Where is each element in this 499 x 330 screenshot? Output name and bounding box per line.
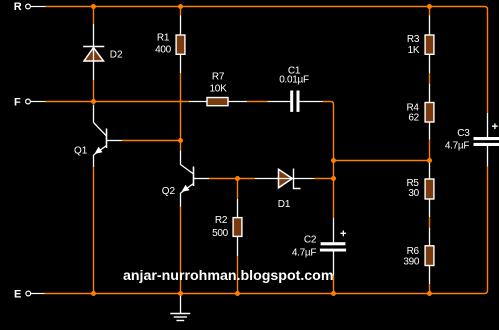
wire R6 bottom to bottom rail: [429, 284, 431, 293]
svg-text:500: 500: [212, 228, 229, 239]
junction D1 node: [331, 176, 336, 181]
wire D2 branch top stub: [93, 7, 95, 25]
svg-text:D2: D2: [110, 50, 123, 61]
junction F D2: [91, 99, 96, 104]
svg-text:C2: C2: [304, 234, 317, 245]
svg-text:390: 390: [403, 256, 420, 267]
wire D2 branch bottom to F node: [93, 80, 95, 102]
svg-text:R7: R7: [212, 71, 225, 82]
junction bottom R2: [235, 291, 240, 296]
svg-text:4.7µF: 4.7µF: [445, 141, 469, 152]
wire R7 to C1: [247, 101, 268, 103]
wire R2 bottom to bottom rail: [237, 256, 239, 294]
svg-text:R: R: [14, 1, 22, 13]
wire D1 cathode to node: [314, 178, 334, 180]
svg-text:10K: 10K: [210, 83, 228, 94]
svg-text:4.7µF: 4.7µF: [292, 247, 316, 258]
transistor Q2: [181, 151, 210, 207]
resistor R5: [425, 161, 434, 218]
wire net R top rail with corner to right rail: [46, 7, 488, 114]
wire D1 node down to C2: [333, 179, 335, 218]
junction mid node left: [331, 158, 336, 163]
svg-text:R1: R1: [157, 33, 170, 44]
svg-text:D1: D1: [278, 199, 291, 210]
svg-text:0.01µF: 0.01µF: [279, 75, 309, 86]
svg-text:Q1: Q1: [74, 146, 88, 157]
wire net F horizontal: [46, 101, 190, 103]
svg-text:R3: R3: [407, 34, 420, 45]
wire Q1 collector to R1 line: [122, 140, 181, 142]
capacitor C2: [320, 218, 346, 276]
diode D2: [83, 24, 104, 80]
wire R5 to R6: [429, 217, 431, 228]
svg-text:62: 62: [408, 112, 419, 123]
svg-text:F: F: [14, 96, 21, 108]
wire node down to D1 node: [333, 161, 335, 179]
junction bottom ground: [178, 291, 183, 296]
resistor R4: [425, 84, 434, 140]
transistor Q1: [94, 105, 123, 168]
svg-text:R2: R2: [215, 215, 228, 226]
junction bottom C2: [331, 291, 336, 296]
junction bottom R6: [427, 291, 432, 296]
wire Q1 emitter down to bottom rail: [93, 167, 95, 294]
junction Q1 collector: [178, 138, 183, 143]
wire R2 top: [237, 179, 239, 200]
svg-text:30: 30: [408, 188, 419, 199]
resistor R6: [425, 228, 434, 285]
wire Q2 emitter down to bottom rail: [180, 207, 182, 294]
resistor R3: [425, 16, 434, 74]
resistor R7: [189, 98, 247, 106]
wire R3 to R4: [429, 73, 431, 83]
junction R4 R5: [427, 158, 432, 163]
junction top D2: [91, 4, 96, 9]
diode D1: [255, 169, 314, 189]
junction top R3: [427, 4, 432, 9]
capacitor C3: [474, 113, 499, 167]
junction top R1: [178, 4, 183, 9]
terminal R: [26, 4, 46, 9]
svg-text:anjar-nurrohman.blogspot.com: anjar-nurrohman.blogspot.com: [123, 268, 333, 284]
svg-text:C3: C3: [457, 128, 470, 139]
wire mid horizontal node to R4 R5 junction: [334, 160, 430, 162]
wire R3 top stub: [429, 7, 431, 16]
wire C1 to node corner down: [323, 102, 334, 161]
svg-text:1K: 1K: [408, 45, 420, 56]
wire R1 top stub: [180, 7, 182, 16]
wire right rail lower segment with corner to bottom rail: [45, 167, 488, 294]
svg-text:R6: R6: [407, 246, 420, 257]
wire C2 bottom to bottom rail: [333, 276, 335, 294]
terminal F: [26, 99, 46, 104]
resistor R1: [176, 16, 185, 74]
wire R4 bottom to junction: [429, 140, 431, 161]
wire R1 bottom through F crossing down to Q2 base: [180, 73, 182, 151]
wire Q2 collector to D1 anode: [209, 178, 255, 180]
resistor R2: [233, 199, 242, 256]
capacitor C1: [268, 91, 323, 112]
ground: [170, 295, 190, 321]
svg-text:400: 400: [155, 45, 172, 56]
svg-text:E: E: [14, 289, 21, 301]
junction bottom Q1: [91, 291, 96, 296]
terminal E: [26, 291, 45, 296]
junction R2 top: [235, 176, 240, 181]
svg-text:Q2: Q2: [162, 186, 176, 197]
